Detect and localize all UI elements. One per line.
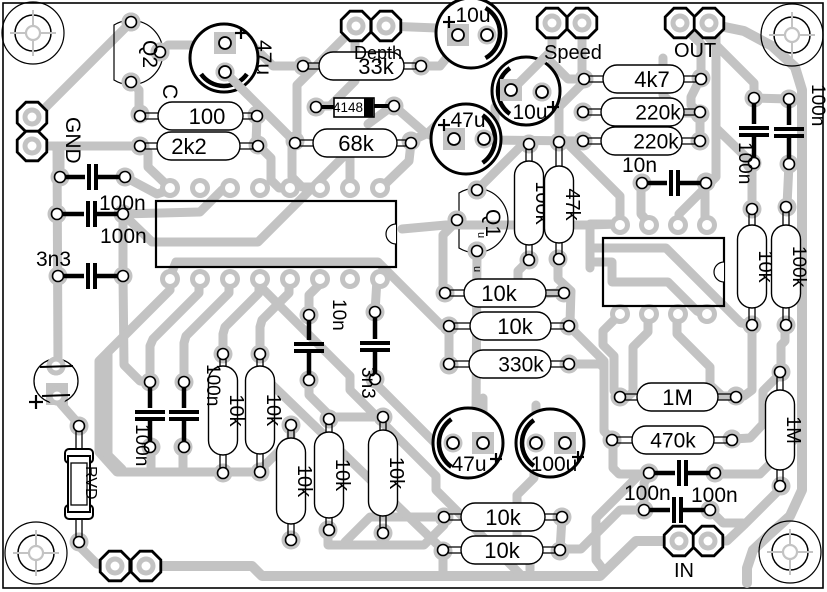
svg-text:u: u — [475, 232, 487, 238]
pad ring — [697, 173, 716, 192]
wire long diagonal B — [264, 377, 442, 549]
resistor R 10k center — [445, 290, 564, 296]
wire long diagonal A — [262, 288, 520, 574]
resistor R 10k bottom2 — [443, 547, 560, 553]
pad ring — [374, 524, 393, 543]
pad ring — [560, 355, 579, 374]
IC1 pin pad 14 — [310, 269, 330, 289]
pad ring — [553, 508, 572, 527]
IC2 pin pad 3 — [668, 215, 688, 235]
pad ring — [692, 69, 711, 88]
wire IC1 pin to C3n3 — [375, 279, 377, 312]
svg-text:100u: 100u — [531, 453, 578, 476]
diode D1 4148 — [316, 105, 334, 109]
IC2 pin pad 7 — [668, 304, 688, 324]
plus mark — [490, 458, 502, 460]
pad ring — [214, 464, 233, 483]
resistor R 10k bl2 — [257, 354, 263, 472]
pad ring — [48, 387, 67, 406]
mounting hole top-left — [2, 2, 64, 64]
wire C100n to edge — [715, 434, 800, 474]
resistor R 100k right — [783, 207, 789, 325]
wire GND bus — [32, 142, 139, 151]
IC2 pin pad 6 — [639, 304, 659, 324]
capacitor C 100u bottom — [516, 409, 584, 477]
wire R68k up — [411, 110, 452, 141]
pad ring — [743, 316, 762, 335]
wire node to R33k — [249, 42, 303, 66]
wire C100u stub — [532, 405, 541, 440]
resistor R 47k vert — [556, 142, 562, 259]
transistor Q1 — [459, 188, 508, 252]
wire C10n to R10k — [309, 380, 378, 417]
wire C100n to IN — [710, 510, 743, 523]
wire 10k to C100n br2 — [563, 510, 641, 549]
IC1 pin pad 16 — [370, 269, 390, 289]
pad ring — [175, 373, 194, 392]
op-amp IC2 — [603, 238, 724, 306]
svg-text:Q2: Q2 — [138, 40, 161, 68]
wire C100n link — [644, 477, 648, 508]
wire R47k to R10k — [558, 259, 571, 326]
IC1 pin pad 3 — [220, 178, 240, 198]
resistor R 10k b5 — [380, 417, 386, 533]
svg-text:100n: 100n — [624, 482, 671, 505]
pad ring — [141, 373, 160, 392]
IC1 pin pad 4 — [250, 178, 270, 198]
svg-text:68k: 68k — [338, 131, 374, 156]
wire OUT to R4k7 — [680, 23, 701, 78]
pad ring — [131, 105, 150, 124]
pad ring — [560, 317, 579, 336]
svg-text:330k: 330k — [498, 354, 544, 377]
wire C100n to R10k — [748, 163, 757, 209]
wire IC1 stub — [346, 157, 355, 186]
pad ring — [448, 211, 467, 230]
pad ring — [374, 408, 393, 427]
wire under IC1 low — [170, 262, 449, 326]
wire R68k to IC1 pin — [292, 143, 315, 187]
wire cap stub — [147, 447, 156, 470]
svg-text:100n: 100n — [131, 424, 152, 466]
wire C3n3 to C47u — [375, 379, 453, 443]
wire to RVD — [57, 399, 79, 425]
mounting hole top-right — [761, 4, 823, 66]
wire under IC2 A — [590, 248, 752, 325]
capacitor C 100n r1 — [752, 98, 757, 124]
svg-text:10n: 10n — [328, 299, 349, 331]
svg-text:47u: 47u — [451, 453, 486, 476]
resistor R 4k7 — [584, 76, 701, 82]
mounting hole bottom-left — [5, 522, 67, 584]
wire IC2 pin6 — [626, 314, 648, 398]
svg-text:Depth: Depth — [354, 43, 402, 63]
pad ring — [603, 431, 622, 450]
IC2 pin pad 4 — [697, 215, 717, 235]
wire D1 to C47u mid — [394, 106, 454, 142]
pad ring — [282, 531, 301, 550]
wire Q1 to R100k — [477, 145, 528, 190]
pad ring — [116, 168, 135, 187]
wire right edge — [715, 25, 802, 583]
wire IC1 pin1 to R2k2 — [141, 147, 170, 188]
wire R4k7 to R220k — [691, 81, 699, 113]
pad ring — [549, 250, 568, 269]
pad ring — [635, 501, 654, 520]
plus mark — [572, 456, 584, 458]
pad ring — [777, 316, 796, 335]
wire Q1 down — [455, 251, 477, 440]
capacitor C 3n3 left — [58, 274, 84, 279]
wire Depth hdr to R68k — [297, 26, 356, 136]
svg-text:GND: GND — [61, 117, 84, 164]
svg-text:100k: 100k — [788, 246, 809, 288]
wire R10k link — [445, 328, 454, 363]
pad ring — [743, 200, 762, 219]
pad ring — [300, 306, 319, 325]
svg-text:4k7: 4k7 — [634, 67, 669, 92]
wire bottom bus — [146, 541, 676, 576]
pad ring — [251, 463, 270, 482]
pad ring — [300, 371, 319, 390]
svg-text:100n: 100n — [734, 142, 755, 184]
pad ring — [723, 430, 742, 449]
wire 10k row link — [345, 517, 444, 545]
capacitor C 10u mid — [492, 57, 560, 125]
wire 10k links — [560, 517, 562, 551]
capacitor C 100n m2 — [182, 382, 187, 408]
wire IC1 pin8 to R68k — [381, 143, 411, 188]
svg-text:2k2: 2k2 — [171, 134, 206, 159]
svg-text:10n: 10n — [622, 154, 657, 177]
wire IC2 to R1M — [603, 315, 620, 397]
svg-text:10k: 10k — [225, 394, 247, 427]
pad ring — [48, 205, 67, 224]
capacitor C 3n3 mid — [373, 312, 378, 339]
pad ring — [772, 363, 791, 382]
wire C100n to IC1 pin1 — [125, 177, 170, 194]
IC2 pin pad 2 — [639, 215, 659, 235]
potentiometer RVD — [76, 427, 82, 541]
wire over C47u — [225, 72, 248, 95]
wire R100k to R1M — [781, 325, 785, 371]
pad ring — [440, 356, 459, 375]
pad ring — [174, 438, 193, 457]
wire C10u to Speed — [512, 23, 552, 90]
pad ring — [366, 370, 385, 389]
capacitor C 47u top — [190, 24, 258, 92]
wire cap link up — [55, 147, 60, 177]
pad ring — [142, 438, 161, 457]
pad ring — [70, 533, 89, 552]
svg-text:100n: 100n — [99, 192, 146, 215]
wire 10k bus — [328, 517, 444, 545]
svg-text:IN: IN — [674, 560, 694, 582]
svg-text:4148: 4148 — [333, 100, 363, 115]
wire R220k link — [696, 114, 705, 141]
svg-text:10u: 10u — [512, 101, 547, 124]
resistor R 10k b4 — [326, 419, 332, 530]
wire IC1 fan E — [223, 279, 259, 354]
wire R470k to C100n — [613, 441, 649, 474]
wire C10u down — [486, 90, 512, 138]
wire IC2 pin5 — [677, 314, 731, 396]
pad ring — [248, 106, 267, 125]
wire C47u stub — [479, 398, 488, 440]
resistor R 68k — [295, 140, 411, 146]
wire RVD to hdr — [79, 542, 115, 566]
IC1 pin pad 10 — [190, 269, 210, 289]
svg-text:3n3: 3n3 — [357, 367, 378, 399]
wire C100n to R100k — [787, 164, 789, 205]
IC1 pin pad 11 — [220, 269, 240, 289]
wire R100k to R10k — [518, 260, 564, 295]
pad ring — [51, 168, 70, 187]
capacitor C 100n left1 — [60, 175, 85, 180]
capacitor C 10n top — [642, 181, 667, 186]
pad ring — [640, 464, 659, 483]
pad ring — [436, 284, 455, 303]
pad ring — [550, 133, 569, 152]
connector IN — [664, 526, 694, 556]
pad ring — [434, 542, 453, 561]
wire IN to R1M — [712, 488, 781, 541]
pad ring — [307, 98, 326, 117]
pad ring — [294, 57, 313, 76]
svg-text:220k: 220k — [633, 131, 679, 154]
IC1 pin pad 12 — [250, 269, 270, 289]
capacitor C 100n left2 — [57, 212, 84, 217]
wire Depth to D1 — [318, 26, 355, 106]
resistor R 10k bottom1 — [444, 514, 562, 520]
transistor Q2 — [114, 20, 163, 84]
plus mark — [438, 124, 450, 126]
pad ring — [122, 13, 141, 32]
svg-text:470k: 470k — [650, 430, 696, 453]
wire Q2 to C1+ — [160, 45, 214, 52]
IC1 pin pad 9 — [160, 269, 180, 289]
capacitor C 10u top — [436, 0, 506, 68]
pad ring — [122, 73, 141, 92]
svg-text:10k: 10k — [293, 465, 315, 498]
pad ring — [412, 57, 431, 76]
pad ring — [402, 132, 421, 151]
resistor R 100k vert — [526, 144, 532, 260]
capacitor C 47u mid — [431, 104, 501, 174]
svg-text:100n: 100n — [100, 225, 147, 248]
pad ring — [780, 155, 799, 174]
svg-text:100n: 100n — [691, 484, 738, 507]
svg-text:1M: 1M — [662, 385, 693, 410]
svg-text:10k: 10k — [484, 538, 520, 563]
pad — [48, 387, 67, 406]
IC1 pin pad 2 — [190, 178, 210, 198]
pad ring — [249, 136, 268, 155]
resistor R 10k right — [749, 209, 755, 325]
pad ring — [49, 267, 68, 286]
pad ring — [555, 284, 574, 303]
wire C1- to R68k — [225, 72, 293, 140]
wire under IC1 — [123, 150, 350, 242]
pad ring — [114, 205, 133, 224]
pad ring — [47, 357, 66, 376]
wire IC2 pin feed — [590, 224, 620, 268]
wire branch — [716, 128, 750, 161]
svg-text:10u: 10u — [455, 4, 490, 27]
svg-text:RVD: RVD — [82, 466, 99, 500]
wire Speed to R47k — [559, 23, 582, 140]
IC1 pin pad 1 — [160, 178, 180, 198]
pad ring — [633, 174, 652, 193]
resistor R 10k b3 — [288, 425, 294, 540]
resistor R 10k center2 — [449, 323, 569, 329]
wire C10n to IC2 — [705, 184, 708, 226]
IC1 pin pad 5 — [280, 178, 300, 198]
wire to D1 — [368, 107, 391, 124]
pad ring — [435, 508, 454, 527]
pad ring — [778, 198, 797, 217]
wire 10k stub — [439, 551, 448, 575]
pad ring — [70, 417, 89, 436]
svg-text:47u: 47u — [450, 109, 485, 132]
plus mark — [29, 401, 43, 403]
pad ring — [706, 464, 725, 483]
pad ring — [520, 251, 539, 270]
svg-text:Speed: Speed — [544, 42, 602, 64]
IC1 pin pad 13 — [280, 269, 300, 289]
wire over C10u — [512, 57, 545, 90]
svg-text:10k: 10k — [262, 394, 284, 427]
wire left column — [57, 146, 58, 366]
IC2 pin pad 8 — [697, 304, 717, 324]
wire 10k stub — [379, 533, 388, 545]
wire C10n to IC2 b — [641, 184, 650, 226]
resistor R 100 — [140, 113, 257, 119]
wire under IC2 B — [590, 262, 706, 315]
pad redraw — [502, 81, 521, 100]
wire C100n to IC1 pin3 — [123, 188, 230, 214]
svg-text:u: u — [471, 266, 483, 272]
plus mark — [235, 32, 247, 34]
connector Depth — [341, 11, 371, 41]
wire OUT to C100n — [709, 23, 754, 98]
IC1 pin pad 8 — [370, 178, 390, 198]
pad — [47, 357, 66, 376]
wire IC1 fan C — [150, 279, 199, 382]
pad ring — [551, 542, 570, 561]
capacitor C 10n mid — [307, 315, 312, 340]
pad ring — [520, 135, 539, 154]
resistor R 1M — [620, 394, 736, 400]
IC1 pin pad 7 — [340, 178, 360, 198]
pad ring — [320, 410, 339, 429]
wire cap stub — [179, 447, 188, 470]
wire IC1 fan B — [108, 290, 170, 469]
pad ring — [114, 267, 133, 286]
pad ring — [131, 137, 150, 156]
pad ring — [468, 181, 487, 200]
pad ring — [440, 317, 459, 336]
pad ring — [151, 43, 170, 62]
pad ring — [385, 97, 404, 116]
resistor R 10k bl1 — [220, 354, 226, 473]
pad ring — [575, 70, 594, 89]
svg-text:100: 100 — [189, 104, 226, 129]
wire C3n3 column — [123, 214, 148, 382]
wire IC1 fan D — [184, 279, 229, 382]
svg-text:10k: 10k — [331, 459, 353, 492]
svg-text:1M: 1M — [782, 416, 804, 444]
capacitor C 100n r2 — [787, 99, 792, 125]
connector power — [100, 551, 130, 581]
pad ring — [214, 345, 233, 364]
IC2 pin pad 5 — [610, 304, 630, 324]
wire IC1 fan G — [309, 279, 318, 312]
wire R330k stub — [569, 364, 604, 368]
svg-text:10k: 10k — [485, 505, 521, 530]
pad ring — [611, 388, 630, 407]
wire mid bus — [484, 140, 583, 141]
resistor R 470k — [612, 437, 732, 443]
resistor R 33k — [303, 63, 421, 69]
wire Q2.C to GND — [32, 22, 131, 117]
wire C100u to bus — [517, 443, 534, 570]
pad ring — [366, 303, 385, 322]
capacitor C 47u bottom — [433, 408, 503, 478]
resistor R 2k2 — [140, 143, 258, 149]
pad ring — [574, 103, 593, 122]
capacitor C 100n br1 — [649, 471, 675, 476]
resistor R 220k b — [583, 138, 700, 144]
svg-text:10k: 10k — [385, 457, 407, 490]
square pad — [46, 383, 68, 405]
wire Q2 to R100 — [131, 82, 139, 112]
wire R10k to R1M — [737, 325, 752, 396]
svg-text:100n: 100n — [202, 364, 223, 406]
svg-text:10k: 10k — [481, 281, 517, 306]
plus mark — [443, 21, 455, 23]
wire to R220k — [663, 58, 697, 113]
wire C100n tops — [754, 98, 789, 99]
IC2 pin pad 1 — [610, 215, 630, 235]
connector OUT — [665, 8, 695, 38]
pad ring — [745, 89, 764, 108]
wire R2k2 to IC1 pin — [258, 145, 288, 188]
pad ring — [691, 105, 710, 124]
pad ring — [251, 345, 270, 364]
pad ring — [468, 242, 487, 261]
svg-text:OUT: OUT — [674, 40, 716, 62]
IC1 pin pad 15 — [340, 269, 360, 289]
svg-text:47k: 47k — [561, 188, 583, 221]
wire IC2 pin1 — [566, 142, 620, 225]
connector Speed — [537, 8, 567, 38]
svg-text:3n3: 3n3 — [36, 248, 71, 271]
wire Q1 to IC2 — [402, 224, 620, 229]
capacitor C 100n m1 — [148, 382, 153, 408]
pad ring — [319, 521, 338, 540]
wire IC1 fan F — [260, 279, 289, 354]
resistor R 330k — [449, 361, 569, 367]
wire Q1 to R10k — [443, 221, 457, 292]
wire R33k to C10u — [421, 44, 458, 66]
capacitor C polarized left — [34, 359, 78, 403]
pad ring — [727, 387, 746, 406]
wire R100 to R2k2 — [256, 117, 257, 143]
op-amp IC1 — [156, 201, 396, 267]
pad ring — [691, 132, 710, 151]
plus mark — [547, 106, 559, 108]
